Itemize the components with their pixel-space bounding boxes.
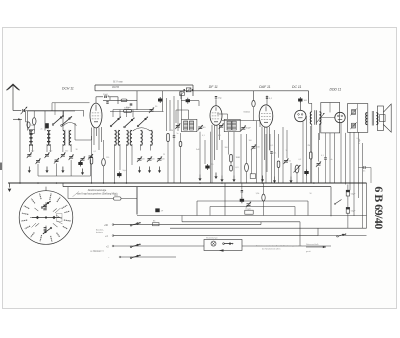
electrolytic 50uF b [346, 207, 349, 213]
trimmer C4 [55, 159, 59, 161]
svg-text:batterie: batterie [96, 231, 104, 234]
wire hop arc [133, 128, 151, 131]
svg-text:Netzanschluß-: Netzanschluß- [306, 243, 319, 246]
svg-text:vom Knopf aus gesehen (Stellun: vom Knopf aus gesehen (Stellung Mitte) [77, 192, 118, 195]
svg-text:0,1: 0,1 [94, 151, 97, 153]
row +4 [113, 235, 318, 237]
IF transformer II can [224, 119, 240, 131]
osc coil L9 [151, 131, 153, 146]
resistor R osc [121, 99, 127, 102]
output tube DDD11 [335, 112, 345, 122]
svg-text:gerät: gerät [306, 250, 311, 253]
driver tr wires [311, 103, 313, 112]
svg-text:1,5k: 1,5k [256, 193, 260, 195]
osc switch Sa [110, 125, 112, 127]
dc11 lower components [310, 152, 313, 159]
arrow netz bottom [306, 246, 326, 248]
svg-text:1M: 1M [171, 130, 174, 132]
svg-text:0,1: 0,1 [202, 135, 205, 137]
capacitor 100pF DC grid [298, 99, 302, 102]
band switch S1b [61, 125, 63, 127]
svg-text:Anoden-: Anoden- [96, 229, 104, 232]
secondary bus [63, 186, 331, 188]
coil bottom wires left [28, 144, 30, 152]
electrolytic 50uF a [346, 190, 349, 196]
padder grounds [139, 167, 141, 172]
switch bottom right [337, 235, 339, 237]
osc grid wire [110, 111, 164, 113]
scan artifact left edge [0, 163, 2, 171]
svg-text:0,1: 0,1 [218, 135, 221, 137]
svg-text:1MΩ: 1MΩ [236, 157, 241, 159]
mid verticals group2 [228, 132, 230, 155]
svg-text:25: 25 [163, 154, 165, 156]
svg-text:DAF 11: DAF 11 [259, 85, 270, 89]
row +90 [113, 224, 261, 226]
trimmer C2 [36, 160, 40, 162]
trimmer C5 [61, 154, 65, 156]
osc coil L6 [127, 131, 129, 146]
svg-text:500: 500 [65, 151, 68, 153]
wire battery to row [242, 245, 331, 247]
af verticals [265, 134, 267, 183]
svg-text:50pF: 50pF [105, 96, 110, 98]
padder cap row2 [81, 158, 85, 160]
wire osc node [136, 91, 138, 110]
right extra verticals [329, 133, 331, 183]
svg-text:500: 500 [31, 151, 34, 153]
earth terminal arrow [13, 118, 22, 120]
osc coil bottom wires [114, 144, 116, 150]
af grounds [262, 176, 264, 181]
osc switch wires [113, 109, 152, 111]
main ground bus [8, 182, 367, 184]
svg-text:0,3: 0,3 [299, 159, 302, 161]
svg-text:50µF: 50µF [351, 194, 356, 196]
svg-text:DDD 11: DDD 11 [330, 87, 342, 91]
grid cap DDD [363, 166, 365, 168]
svg-text:60pF: 60pF [246, 128, 252, 130]
pcap below bus [240, 199, 244, 202]
trimmer C1 [27, 154, 31, 156]
bus +90V top [95, 84, 193, 86]
osc coil L8 [141, 131, 143, 146]
wire left into bus [19, 119, 21, 183]
disc coil stack bottom [44, 227, 47, 229]
svg-text:500: 500 [49, 151, 52, 153]
antenna coil L1 pair [29, 131, 31, 146]
coil core lines [30, 130, 32, 146]
wire band switch top [28, 110, 76, 112]
IF-II trimmer left [219, 125, 223, 127]
output tr primary a [352, 110, 356, 115]
bus right drop [192, 85, 194, 96]
wire antenna to coupling cap [13, 110, 21, 112]
output tr primary b [352, 123, 356, 128]
electrolytic left [78, 162, 82, 165]
bus anode supply [95, 90, 309, 92]
ground bus junction dots [19, 182, 21, 184]
wire main drop x137 [136, 187, 138, 215]
svg-text:bei Netzbetrieb offen: bei Netzbetrieb offen [262, 248, 280, 251]
wire screen link [181, 100, 186, 102]
svg-text:91 V max: 91 V max [113, 82, 124, 84]
driver transformer primary [310, 112, 312, 124]
svg-text:DCH 11: DCH 11 [62, 86, 74, 90]
earth arrow left [9, 183, 11, 188]
triode-hexode DCH11 [90, 103, 102, 128]
resistor 600k DAF [252, 100, 255, 106]
output wires down [345, 133, 347, 185]
bus terminal box [186, 88, 191, 92]
row y214 [137, 215, 367, 217]
regler box on row [245, 210, 253, 214]
antenna [7, 84, 20, 90]
svg-text:90/150: 90/150 [112, 87, 120, 89]
bus far drop [308, 91, 310, 104]
speaker transformer [366, 113, 368, 125]
wire cap to osc section [108, 96, 118, 98]
wire DAF grid cap [266, 96, 268, 105]
af resistor [277, 161, 280, 168]
svg-text:0,1: 0,1 [357, 138, 360, 140]
driver triode DC11 [295, 110, 306, 121]
switch contact stack [45, 123, 49, 128]
svg-text:30: 30 [76, 149, 78, 151]
resistor chain a [167, 134, 170, 142]
driver transformer secondary [319, 112, 321, 124]
terminal box 2 [180, 92, 185, 96]
speaker cone [383, 104, 391, 132]
left block lower wires [37, 164, 39, 176]
wire elco net [347, 196, 349, 207]
svg-text:0,1µF: 0,1µF [359, 138, 361, 144]
battery arrow [219, 249, 224, 252]
row y221 [182, 221, 300, 223]
coupling pcap mid [205, 166, 209, 169]
padding trimmer osc [150, 109, 154, 111]
IF-II trimmer right [241, 127, 245, 129]
anode resistor oval [245, 163, 249, 172]
speaker frame [377, 106, 383, 131]
IF-II primary winding [227, 121, 231, 130]
dc grid leak [317, 163, 321, 165]
capacitor 50pF osc [129, 103, 131, 105]
speaker magnet [380, 115, 386, 122]
output tr inner wire [356, 104, 358, 133]
wire DAF feed drop [253, 91, 255, 101]
svg-text:5n: 5n [177, 133, 179, 135]
vert right x300 [299, 222, 301, 246]
svg-text:Abstimmanzeige: Abstimmanzeige [88, 189, 107, 192]
svg-text:2M: 2M [308, 145, 311, 147]
svg-text:4n: 4n [331, 159, 333, 161]
wire DC11 top [299, 99, 301, 111]
IF pentode DF11 [210, 106, 222, 126]
nested loop wire inner [210, 206, 295, 208]
volume pot [295, 165, 299, 173]
svg-text:2x: 2x [41, 128, 43, 130]
svg-text:50: 50 [310, 193, 312, 195]
svg-text:DF 11: DF 11 [209, 85, 218, 89]
IF-II secondary winding [232, 121, 236, 130]
osc switch Sb [124, 126, 126, 128]
resistor chain c [179, 142, 182, 147]
disc inner contacts [41, 207, 43, 209]
dial lamp [211, 241, 216, 246]
misc right caps [324, 157, 326, 159]
antenna coil L3 pair [63, 131, 65, 146]
vert below bus x225 [224, 183, 226, 216]
af cap [270, 151, 272, 153]
osc coil L4 [115, 131, 117, 146]
trimmer below bus [247, 203, 251, 205]
nested loop wire outer [197, 200, 308, 202]
svg-text:NF 468 kHz: NF 468 kHz [90, 251, 101, 253]
capacitor grid DF11 [215, 96, 217, 98]
svg-text:100: 100 [249, 140, 252, 142]
svg-text:50µF: 50µF [351, 211, 356, 213]
output stage box [321, 103, 340, 133]
screen resistor DF [230, 155, 233, 163]
trimmer mid right [252, 146, 256, 148]
IF-I top wire [188, 110, 190, 119]
band switch S1a [52, 124, 54, 126]
svg-text:0,5: 0,5 [271, 145, 274, 147]
antenna coil L2 pair [47, 131, 49, 146]
svg-text:Regler: Regler [246, 207, 252, 210]
osc coupling pcap [158, 99, 162, 102]
caption pointer [73, 192, 80, 197]
band switch disc [19, 191, 73, 245]
resistor 50k osc [124, 110, 132, 113]
bus left drop [94, 85, 96, 91]
trimmer C6 [69, 156, 73, 158]
IF-II feed wire [217, 113, 228, 115]
row minus [120, 256, 176, 258]
IF-I secondary winding [189, 121, 193, 130]
capacitor 20pF at DCH11 [104, 96, 106, 98]
output box inner wire [329, 103, 331, 113]
svg-text:60Ω: 60Ω [31, 125, 35, 127]
wire DCH11 anode up [95, 97, 97, 103]
padder trimmer P1 [138, 158, 142, 160]
resistor antenna oval [32, 118, 36, 125]
small box mid [250, 174, 255, 179]
svg-text:5n: 5n [363, 171, 365, 173]
svg-text:0,1: 0,1 [321, 155, 324, 157]
trimmer C3 [45, 154, 49, 156]
cap below bus [241, 189, 243, 191]
svg-text:150: 150 [106, 157, 109, 159]
switch hop wire [64, 123, 77, 126]
diode-pentode DAF11 [259, 105, 273, 127]
oval below bus [262, 194, 265, 201]
series resistor antenna [25, 111, 27, 122]
row y228 [170, 227, 367, 229]
IF transformer I can [182, 119, 197, 131]
capacitor screen DF [186, 99, 190, 102]
IF-I trimmer right [198, 126, 202, 128]
wire cap onward [26, 110, 84, 112]
svg-text:1n: 1n [286, 150, 288, 152]
disc center line [32, 217, 60, 219]
vert x366 right [366, 183, 368, 228]
svg-text:6 B 69/40: 6 B 69/40 [372, 186, 386, 229]
small box on feed line [155, 208, 159, 212]
row terminals [112, 224, 114, 226]
IF-I primary winding [184, 121, 188, 130]
osc lower verticals [114, 151, 116, 184]
svg-text:300: 300 [225, 147, 228, 149]
osc section verticals [166, 98, 168, 131]
wire DF screen [180, 91, 182, 99]
DCH11 pin wires [91, 128, 93, 141]
feed resistor 5k [67, 187, 69, 199]
mid grounds [199, 175, 201, 180]
af trimmer [284, 160, 288, 162]
cathode resistor DCH [102, 158, 106, 166]
IF-I trimmer left [176, 125, 180, 127]
svg-text:Skalenlampe: Skalenlampe [206, 237, 218, 239]
bypass electrolytic DCH [117, 173, 121, 176]
pcap right low [304, 171, 308, 174]
wire to DF grid cap [215, 99, 217, 106]
battery switch [223, 243, 225, 245]
resistor under DCH [90, 157, 93, 164]
osc coil L5 [118, 131, 120, 146]
svg-text:DC 11: DC 11 [292, 85, 301, 89]
capacitor antenna coupling [22, 109, 24, 112]
ground left coils [28, 167, 30, 172]
choke between [336, 200, 342, 204]
capacitor chain b [173, 135, 175, 137]
DF11 pin wires [211, 125, 213, 183]
wire grid row [103, 99, 137, 101]
battery box [204, 240, 242, 251]
IF link wire [222, 120, 260, 122]
capacitor 50pF ant [106, 101, 108, 103]
driver transformer core [314, 110, 316, 125]
disc coil stack top [43, 204, 46, 206]
agc wire left [52, 102, 90, 104]
mid verticals group1 [199, 132, 201, 175]
svg-text:Batterie u. sind z. den Anschl: Batterie u. sind z. den Anschlußbuchsen … [256, 245, 303, 248]
padder trimmer P3 [158, 158, 162, 160]
grid resistor DAF [230, 166, 233, 172]
row heiz [113, 245, 204, 247]
output transformer can [348, 104, 368, 133]
osc coil L7 [130, 131, 132, 146]
svg-text:5kΩ: 5kΩ [114, 195, 118, 197]
svg-text:600kΩ: 600kΩ [244, 111, 251, 113]
padder trimmer P2 [148, 158, 152, 160]
DAF11 pin wires [261, 127, 263, 183]
osc switch Sc [137, 125, 139, 127]
driver transformer arrow [317, 113, 325, 123]
